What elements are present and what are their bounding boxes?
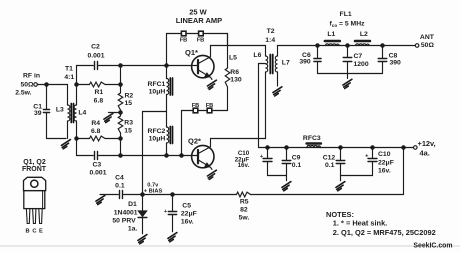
- capacitor C10 (right) electrolytic: [341, 148, 378, 176]
- resistor R6: [225, 68, 230, 87]
- svg-text:B: B: [26, 228, 30, 234]
- svg-text:L7: L7: [282, 60, 290, 67]
- resistor R1: [90, 82, 106, 87]
- svg-text:RFC2: RFC2: [148, 128, 166, 135]
- svg-text:22μF: 22μF: [181, 210, 197, 217]
- wire: Q1 collector line to T2: [211, 46, 266, 57]
- choke RFC1: [167, 66, 173, 112]
- svg-text:16v.: 16v.: [181, 218, 194, 225]
- transistor Q1: [192, 46, 214, 80]
- wire: Q2 base line left: [77, 155, 94, 157]
- svg-text:FRONT: FRONT: [22, 166, 47, 173]
- svg-text:C10: C10: [378, 151, 391, 158]
- transformer T1 core: [71, 104, 73, 123]
- wire: bias/supply rail left: [100, 194, 118, 196]
- wire: R1 right lead: [105, 84, 120, 86]
- junction: base line / R2: [119, 64, 122, 67]
- wire: L5/R6 branch: [227, 34, 229, 69]
- svg-text:FB: FB: [206, 103, 214, 109]
- svg-text:390: 390: [390, 59, 402, 66]
- ground: [96, 195, 105, 204]
- svg-text:39: 39: [34, 110, 42, 117]
- svg-text:10μH: 10μH: [149, 89, 166, 96]
- svg-text:L3: L3: [56, 106, 64, 113]
- svg-text:C9: C9: [292, 155, 301, 162]
- svg-text:Q1, Q2: Q1, Q2: [23, 159, 46, 166]
- svg-text:C12: C12: [323, 155, 336, 162]
- capacitor C5 electrolytic: [168, 195, 176, 232]
- capacitor C10 (left) electrolytic: [263, 148, 287, 176]
- junction: C10a tap: [266, 146, 269, 149]
- svg-text:L5: L5: [229, 54, 237, 61]
- wire: +12V riser to supply rail: [403, 148, 405, 195]
- wire: R1 left lead: [77, 84, 90, 86]
- junction: L4 bottom / R4: [75, 137, 78, 140]
- svg-text:R1: R1: [94, 89, 103, 96]
- junction: C9 tap: [285, 146, 288, 149]
- svg-text:FL1: FL1: [340, 11, 352, 18]
- junction: Q2 base line / FB rail: [180, 154, 183, 157]
- svg-text:15: 15: [125, 100, 133, 107]
- svg-text:T2: T2: [267, 28, 275, 35]
- wire: supply rail right: [251, 194, 404, 196]
- ground: [336, 182, 345, 191]
- svg-text:1:4: 1:4: [265, 37, 275, 44]
- svg-text:82: 82: [240, 206, 248, 213]
- wire: R6 bottom to Q2 FB rail: [227, 87, 229, 111]
- svg-text:16v.: 16v.: [378, 168, 391, 175]
- svg-text:D1: D1: [128, 201, 137, 208]
- transformer T1 winding L3: [68, 105, 70, 121]
- svg-text:C7: C7: [354, 53, 363, 60]
- svg-text:C3: C3: [92, 161, 101, 168]
- resistor R4: [90, 136, 106, 141]
- wire: R2 top lead: [120, 66, 122, 94]
- wire: R2/R3 junction: [109, 110, 121, 116]
- svg-text:+: +: [164, 209, 168, 215]
- svg-text:1N4001: 1N4001: [114, 210, 138, 217]
- svg-text:LINEAR AMP: LINEAR AMP: [176, 16, 222, 25]
- Q1,Q2 package outline (TO-220 front view): [24, 177, 46, 223]
- capacitor C12: [336, 148, 345, 181]
- svg-text:C8: C8: [389, 52, 398, 59]
- svg-text:6.8: 6.8: [91, 128, 101, 135]
- junction: L4 top / R1: [75, 83, 78, 86]
- svg-text:0.1: 0.1: [325, 162, 335, 169]
- choke RFC2: [167, 112, 173, 156]
- svg-text:C5: C5: [182, 203, 191, 210]
- capacitor C1: [43, 85, 49, 139]
- ground: [207, 80, 216, 89]
- junction: C12 tap: [339, 146, 342, 149]
- svg-text:R5: R5: [240, 198, 249, 205]
- junction: R1/R2: [119, 83, 122, 86]
- svg-text:L4: L4: [78, 109, 86, 116]
- ferrite bead FB: [181, 31, 186, 36]
- svg-text:390: 390: [299, 58, 311, 65]
- svg-text:R3: R3: [124, 120, 133, 127]
- junction: base line / RFC1: [165, 64, 168, 67]
- svg-text:R4: R4: [91, 120, 100, 127]
- resistor R2: [118, 93, 123, 110]
- choke RFC3: [307, 144, 322, 148]
- capacitor C7: [343, 46, 352, 74]
- wire: RF input to T1: [37, 85, 67, 106]
- svg-text:1. * = Heat sink.: 1. * = Heat sink.: [333, 218, 387, 227]
- junction: R3 / Q2 base line: [119, 154, 122, 157]
- ferrite bead FB: [193, 108, 198, 113]
- svg-text:+ BIAS: + BIAS: [144, 189, 163, 195]
- svg-text:2.5w.: 2.5w.: [15, 90, 31, 97]
- junction: C10b tap: [371, 146, 374, 149]
- svg-text:Q2*: Q2*: [188, 137, 201, 146]
- transformer T2 winding L7: [275, 56, 277, 72]
- svg-text:0.001: 0.001: [87, 53, 104, 60]
- capacitor C4: [120, 191, 123, 199]
- ferrite bead rail Q1: [167, 34, 228, 66]
- svg-text:L2: L2: [360, 31, 368, 38]
- resistor R3: [118, 116, 123, 133]
- inductor L1: [325, 41, 340, 46]
- svg-text:50 PRV: 50 PRV: [112, 218, 136, 225]
- junction: C6 tap: [316, 44, 319, 47]
- transformer T2 winding L6: [266, 56, 268, 72]
- wire: Q2 collector line to T2: [211, 72, 266, 139]
- ground: [343, 79, 352, 88]
- wire: R4 right lead: [105, 138, 120, 140]
- capacitor C3: [95, 152, 98, 160]
- node +12V terminal: [414, 146, 418, 150]
- ground: [282, 182, 291, 191]
- svg-text:ANT: ANT: [420, 34, 435, 41]
- junction: C5 tap: [171, 193, 174, 196]
- svg-text:fco = 5 MHz: fco = 5 MHz: [330, 21, 366, 28]
- junction: +12V riser: [402, 146, 405, 149]
- svg-text:22μF: 22μF: [378, 159, 394, 166]
- svg-text:4:1: 4:1: [64, 74, 74, 81]
- junction: C1 tap: [45, 83, 48, 86]
- svg-text:FB: FB: [192, 103, 200, 109]
- junction: R2/R3 ground tap: [119, 111, 122, 114]
- wire: R3 bottom to Q2 base line: [120, 133, 122, 156]
- svg-text:C4: C4: [115, 175, 124, 182]
- svg-text:C: C: [32, 228, 36, 234]
- wire: C2 to Q1 base: [99, 65, 192, 67]
- wire: R4 left lead: [77, 138, 90, 140]
- svg-text:15: 15: [124, 127, 132, 134]
- capacitor C6: [314, 46, 321, 74]
- svg-text:+12v,: +12v,: [418, 139, 436, 148]
- svg-text:10μH: 10μH: [149, 135, 166, 142]
- svg-text:0.1: 0.1: [292, 162, 302, 169]
- wire: L4 top to Q1 base line: [77, 66, 94, 106]
- wire: C1/L3 bottom to ground: [47, 121, 68, 139]
- node ANT terminal: [415, 44, 419, 48]
- ground: [273, 87, 282, 96]
- diode D1: [138, 195, 147, 234]
- junction: C8 tap: [381, 44, 384, 47]
- ferrite bead rail Q2: [182, 111, 228, 156]
- wire: L7 bottom to ground: [277, 72, 279, 86]
- wire: L4 bottom lead: [76, 121, 78, 156]
- svg-text:6.8: 6.8: [94, 97, 104, 104]
- svg-text:0.001: 0.001: [89, 169, 106, 176]
- ground: [168, 233, 177, 242]
- wire: bias feed jog RFC1/RFC2 midpoint: [143, 112, 167, 195]
- ground: [207, 170, 216, 179]
- svg-text:RFC1: RFC1: [148, 81, 166, 88]
- svg-text:4a.: 4a.: [420, 149, 430, 158]
- svg-text:SeekIC.com: SeekIC.com: [413, 243, 452, 250]
- svg-text:L6: L6: [253, 52, 261, 59]
- ground: [61, 140, 70, 149]
- wire: L7 top to output filter: [278, 46, 416, 57]
- svg-text:R2: R2: [125, 92, 134, 99]
- svg-text:2. Q1, Q2 = MRF475, 25C2092: 2. Q1, Q2 = MRF475, 25C2092: [333, 228, 436, 237]
- ground: [104, 113, 113, 122]
- transformer T2 core: [270, 55, 272, 74]
- node RF in terminal: [34, 83, 38, 87]
- wire: T2 center tap to +12V bus: [259, 64, 266, 148]
- svg-text:RF in: RF in: [23, 73, 40, 80]
- capacitor C9: [282, 148, 291, 181]
- svg-text:E: E: [39, 228, 43, 234]
- svg-text:R6: R6: [230, 69, 239, 76]
- svg-text:1a.: 1a.: [128, 226, 138, 233]
- svg-text:FB: FB: [180, 38, 188, 44]
- inductor L2: [355, 41, 370, 46]
- svg-text:16v.: 16v.: [238, 162, 250, 169]
- junction: C7 tap: [346, 44, 349, 47]
- svg-text:Q1*: Q1*: [185, 48, 198, 57]
- svg-text:0.1: 0.1: [115, 183, 125, 190]
- capacitor C8: [378, 46, 387, 74]
- junction: R3/R4: [119, 137, 122, 140]
- svg-text:FB: FB: [197, 38, 205, 44]
- transformer T1 winding L4: [74, 105, 76, 121]
- svg-text:L1: L1: [327, 31, 335, 38]
- svg-text:5w.: 5w.: [239, 214, 250, 221]
- svg-text:T1: T1: [65, 65, 73, 72]
- junction: bias riser: [141, 193, 144, 196]
- wire: C3 to Q2 base: [99, 155, 192, 157]
- wire: bias rail: [124, 194, 237, 196]
- wire: +12V bus: [259, 147, 414, 149]
- transistor Q2: [192, 139, 214, 170]
- wire: filter ground rail: [318, 74, 383, 79]
- ferrite bead FB: [199, 31, 204, 36]
- ground: [138, 235, 147, 244]
- svg-text:1200: 1200: [354, 61, 369, 68]
- resistor R5: [237, 192, 251, 197]
- junction: Q2 base line / RFC2: [165, 154, 168, 157]
- svg-text:RFC3: RFC3: [303, 135, 321, 142]
- svg-text:50Ω: 50Ω: [421, 42, 435, 49]
- svg-text:C2: C2: [91, 44, 100, 51]
- capacitor C2: [95, 62, 98, 70]
- svg-text:50Ω: 50Ω: [20, 82, 34, 89]
- ferrite bead FB: [207, 108, 212, 113]
- svg-text:130: 130: [230, 77, 242, 84]
